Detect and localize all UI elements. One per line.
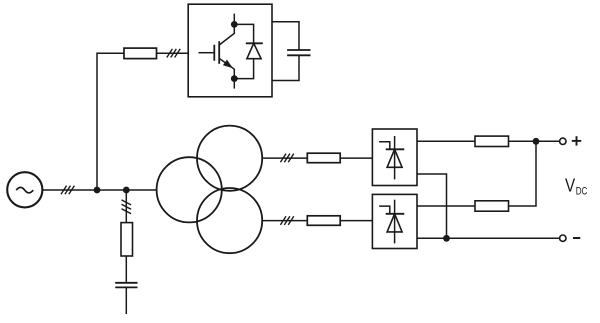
rectifier U3 box xyxy=(372,194,417,248)
node junction J1 xyxy=(94,187,101,194)
wire top stub in U1 xyxy=(233,14,235,25)
resistor R6 xyxy=(475,201,509,211)
converter U1 box xyxy=(188,4,272,97)
wire tertiary to R4 xyxy=(262,220,307,222)
transformer T1 secondary winding xyxy=(197,126,262,191)
resistor R5 xyxy=(475,136,509,146)
wire U2 top output to R5 xyxy=(417,140,475,142)
wire bottom rail to minus terminal xyxy=(417,237,559,239)
wire R4 to rectifier U3 xyxy=(340,220,372,222)
wire R1 to converter box xyxy=(157,52,189,54)
transformer T1 tertiary winding xyxy=(197,188,262,253)
node dot U1 bottom xyxy=(231,75,238,82)
IGBT Q1 xyxy=(199,24,235,78)
wire U1 to capacitor C1 xyxy=(272,22,299,50)
node dot U1 top xyxy=(231,21,238,28)
terminal minus xyxy=(560,235,581,241)
node junction J4 xyxy=(443,235,450,242)
resistor R4 xyxy=(307,216,340,226)
wire R2 to C2 xyxy=(125,256,127,283)
rectifier U2 box xyxy=(372,129,417,186)
3-phase marks on source wire xyxy=(61,186,74,195)
node junction J2 xyxy=(123,187,130,194)
node junction J3 xyxy=(533,138,540,145)
diode D1 xyxy=(246,43,263,58)
label VDC xyxy=(565,176,588,198)
wire U2 bottom output down to bottom rail xyxy=(417,174,447,238)
wire J2 down to R2 xyxy=(125,190,127,223)
resistor R2 xyxy=(121,223,133,256)
resistor R3 xyxy=(307,153,340,163)
wire secondary to R3 xyxy=(262,157,307,159)
transformer T1 primary winding xyxy=(157,157,222,222)
thyristor in U2 xyxy=(379,136,404,179)
wire AC to transformer primary xyxy=(43,189,157,191)
3-phase marks on tertiary wire xyxy=(280,216,293,225)
svg-text:DC: DC xyxy=(576,186,588,198)
AC source G1 xyxy=(7,172,42,207)
wire diode loop xyxy=(234,24,253,78)
wire J1 up to filter branch xyxy=(97,53,124,190)
wire bottom stub in U1 xyxy=(233,79,235,89)
resistor R1 xyxy=(124,48,157,59)
capacitor C2 xyxy=(115,283,137,288)
wire R6 up to J3 xyxy=(509,141,537,206)
wire U3 top output to R6 xyxy=(417,205,475,207)
3-phase marks on converter wire xyxy=(167,49,180,58)
wire below C2 xyxy=(125,287,127,314)
thyristor in U3 xyxy=(379,200,404,244)
svg-text:V: V xyxy=(565,176,575,196)
capacitor C1 xyxy=(287,50,310,55)
3-phase marks on shunt branch xyxy=(122,200,132,214)
terminal plus xyxy=(560,136,582,145)
3-phase marks on secondary wire xyxy=(280,154,293,163)
wire R5 to plus terminal xyxy=(509,140,560,142)
wire R3 to rectifier U2 xyxy=(340,157,372,159)
